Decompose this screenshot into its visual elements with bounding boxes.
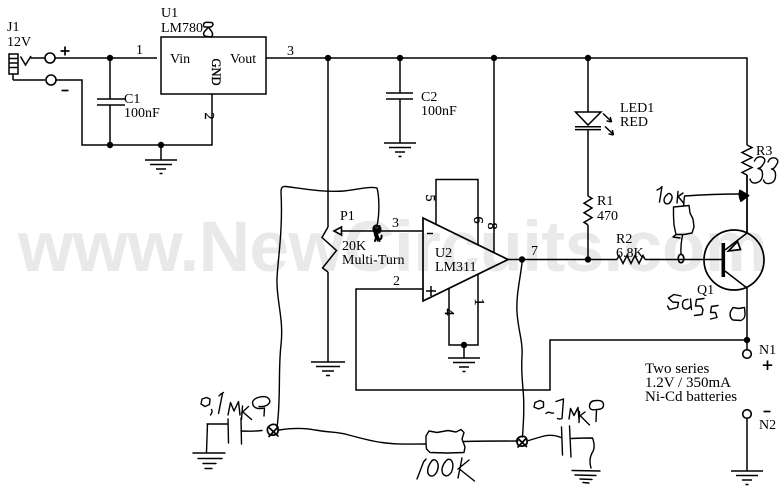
svg-text:GND: GND — [209, 58, 223, 85]
svg-text:7: 7 — [531, 244, 538, 259]
svg-text:C2: C2 — [421, 90, 437, 105]
svg-text:R1: R1 — [597, 194, 613, 209]
svg-text:R2: R2 — [616, 232, 632, 247]
svg-text:U2: U2 — [435, 246, 452, 261]
svg-text:LM780: LM780 — [161, 21, 203, 36]
svg-text:LED1: LED1 — [620, 101, 654, 116]
svg-text:2: 2 — [393, 274, 400, 289]
svg-text:LM311: LM311 — [435, 260, 476, 275]
svg-text:N2: N2 — [759, 418, 776, 433]
svg-text:20K: 20K — [342, 239, 366, 254]
svg-text:12V: 12V — [7, 35, 31, 50]
svg-text:Ni-Cd batteries: Ni-Cd batteries — [645, 389, 737, 405]
svg-text:U1: U1 — [161, 6, 178, 21]
svg-text:5: 5 — [422, 195, 437, 202]
svg-text:Vout: Vout — [230, 52, 256, 67]
svg-text:1: 1 — [136, 43, 143, 58]
svg-text:1: 1 — [471, 299, 486, 306]
svg-text:6.8K: 6.8K — [616, 246, 644, 261]
svg-text:C1: C1 — [124, 92, 140, 107]
svg-text:100nF: 100nF — [124, 106, 160, 121]
svg-text:3: 3 — [287, 44, 294, 59]
svg-text:470: 470 — [597, 209, 618, 224]
svg-text:Vin: Vin — [170, 52, 190, 67]
svg-text:6: 6 — [470, 217, 485, 224]
svg-text:100nF: 100nF — [421, 104, 457, 119]
svg-text:P1: P1 — [340, 209, 355, 224]
svg-text:2: 2 — [201, 113, 216, 120]
svg-text:RED: RED — [620, 115, 648, 130]
svg-text:3: 3 — [392, 216, 399, 231]
svg-text:J1: J1 — [7, 20, 19, 35]
svg-text:Q1: Q1 — [697, 283, 714, 298]
svg-text:Multi-Turn: Multi-Turn — [342, 253, 405, 268]
svg-text:8: 8 — [484, 223, 499, 230]
svg-text:4: 4 — [441, 309, 456, 316]
svg-text:N1: N1 — [759, 343, 776, 358]
